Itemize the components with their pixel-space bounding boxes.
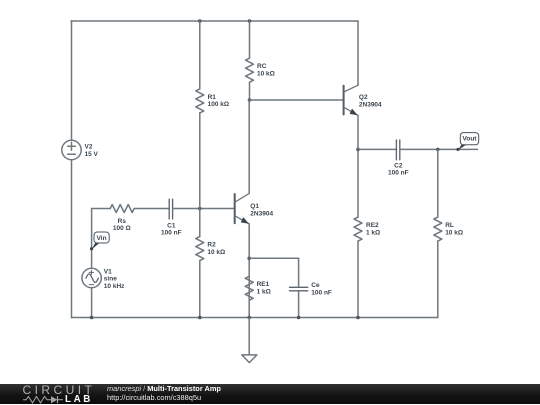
wire RE2 bottom lead	[357, 241, 359, 317]
wire RL bottom lead	[437, 241, 439, 317]
svg-text:R1: R1	[208, 94, 217, 101]
svg-text:V2: V2	[85, 144, 93, 151]
wire Rs to C1	[134, 208, 169, 210]
svg-text:Vout: Vout	[463, 136, 478, 143]
svg-text:R2: R2	[207, 242, 216, 249]
wire top rail	[71, 20, 358, 22]
label RE2	[366, 222, 380, 236]
svg-text:1 kΩ: 1 kΩ	[257, 289, 271, 296]
flag Vout	[456, 133, 478, 151]
node RL top junction	[436, 148, 440, 152]
wire R2 top lead	[199, 209, 201, 237]
node R2 ground junction	[198, 316, 202, 320]
logo LAB	[65, 394, 93, 405]
label C1	[161, 222, 182, 236]
label RC	[257, 63, 275, 77]
wire R2 bottom lead	[199, 261, 201, 318]
label V2	[85, 144, 99, 158]
svg-text:2N3904: 2N3904	[250, 210, 273, 217]
node V1-ground junction	[90, 316, 94, 320]
svg-text:Ce: Ce	[311, 282, 320, 289]
wire V1 branch top	[91, 209, 93, 269]
svg-text:10 kHz: 10 kHz	[104, 283, 125, 290]
resistor RC	[246, 58, 254, 82]
wire Ce top lead	[298, 258, 300, 287]
capacitor C1	[169, 199, 172, 219]
svg-text:RL: RL	[445, 222, 454, 229]
footer url line	[107, 393, 201, 402]
node Ce ground junction	[297, 316, 301, 320]
node RE1 ground junction	[247, 316, 251, 320]
svg-text:RE1: RE1	[257, 281, 270, 288]
transistor Q2	[344, 85, 358, 115]
node R1 R2 junction	[198, 207, 202, 211]
svg-text:Vin: Vin	[97, 235, 107, 242]
ground	[242, 318, 257, 363]
svg-text:100 nF: 100 nF	[161, 230, 182, 237]
svg-text:100 Ω: 100 Ω	[113, 225, 131, 232]
wire Ce bottom lead	[298, 291, 300, 318]
capacitor Ce	[290, 287, 308, 291]
svg-text:2N3904: 2N3904	[359, 102, 382, 109]
svg-text:C1: C1	[167, 222, 176, 229]
wire V1 branch bottom	[91, 288, 93, 318]
logo CIRCUIT	[23, 383, 96, 397]
wire RC top lead	[249, 21, 251, 58]
node RE2 ground junction	[356, 316, 360, 320]
svg-text:sine: sine	[104, 276, 117, 283]
svg-text:V1: V1	[104, 268, 112, 275]
resistor RE2	[354, 217, 362, 241]
label Q1	[250, 203, 273, 217]
svg-text:C2: C2	[394, 162, 403, 169]
wire left vertical top	[71, 21, 73, 141]
label Rs	[113, 218, 131, 232]
svg-text:1 kΩ: 1 kΩ	[366, 229, 380, 236]
node RC collector junction	[248, 98, 252, 102]
label RL	[445, 222, 463, 236]
label C2	[388, 162, 409, 176]
wire emitter node to C2	[358, 148, 397, 150]
wire R1 bottom lead	[199, 113, 201, 209]
svg-text:RC: RC	[257, 63, 267, 70]
resistor Rs	[110, 205, 134, 213]
wire left vertical bottom	[71, 160, 73, 318]
svg-text:RE2: RE2	[366, 222, 379, 229]
node RC top rail junction	[248, 19, 252, 23]
wire Q2 collector	[357, 21, 359, 85]
wire RC bottom lead	[249, 82, 251, 100]
wire Q1 collector	[248, 100, 250, 193]
label Q2	[359, 94, 382, 108]
label Ce	[311, 282, 332, 296]
svg-text:Q1: Q1	[250, 203, 259, 210]
flag Vin	[90, 232, 109, 250]
voltage source V2	[62, 140, 81, 159]
svg-text:10 kΩ: 10 kΩ	[445, 229, 463, 236]
footer title line	[107, 384, 221, 393]
label V1	[104, 268, 125, 290]
node Q2 emitter output junction	[356, 148, 360, 152]
voltage source V1	[82, 268, 101, 287]
label R2	[207, 242, 225, 256]
node R1 top rail junction	[198, 19, 202, 23]
wire R1 top lead	[199, 21, 201, 89]
transistor Q1	[235, 193, 250, 224]
wire RL top lead	[437, 149, 439, 217]
wire Q2 emitter	[357, 115, 359, 217]
wire Q1 emitter	[248, 224, 250, 318]
node Q1 emitter RE1 junction	[247, 257, 251, 261]
resistor RE1	[245, 276, 253, 300]
svg-text:Q2: Q2	[359, 94, 368, 101]
svg-text:15 V: 15 V	[85, 151, 99, 158]
label RE1	[257, 281, 271, 295]
resistor R1	[196, 89, 204, 113]
capacitor C2	[396, 140, 399, 160]
svg-text:100 kΩ: 100 kΩ	[208, 101, 229, 108]
wire Vin corner to Rs	[92, 208, 111, 210]
wire bottom rail	[72, 317, 438, 319]
svg-text:10 kΩ: 10 kΩ	[207, 249, 225, 256]
svg-text:10 kΩ: 10 kΩ	[257, 70, 275, 77]
resistor RL	[434, 217, 442, 241]
wire C1 to Q1 base	[173, 208, 234, 210]
wire node to Q2 base	[250, 99, 344, 101]
logo resistor-diode glyph	[23, 395, 65, 405]
svg-text:100 nF: 100 nF	[311, 290, 332, 297]
wire C2 to output	[400, 148, 478, 150]
svg-text:100 nF: 100 nF	[388, 170, 409, 177]
wire Ce branch horizontal	[249, 257, 298, 259]
resistor R2	[196, 237, 204, 261]
label R1	[208, 94, 229, 108]
svg-text:Rs: Rs	[118, 218, 127, 225]
footer bar	[0, 384, 540, 404]
